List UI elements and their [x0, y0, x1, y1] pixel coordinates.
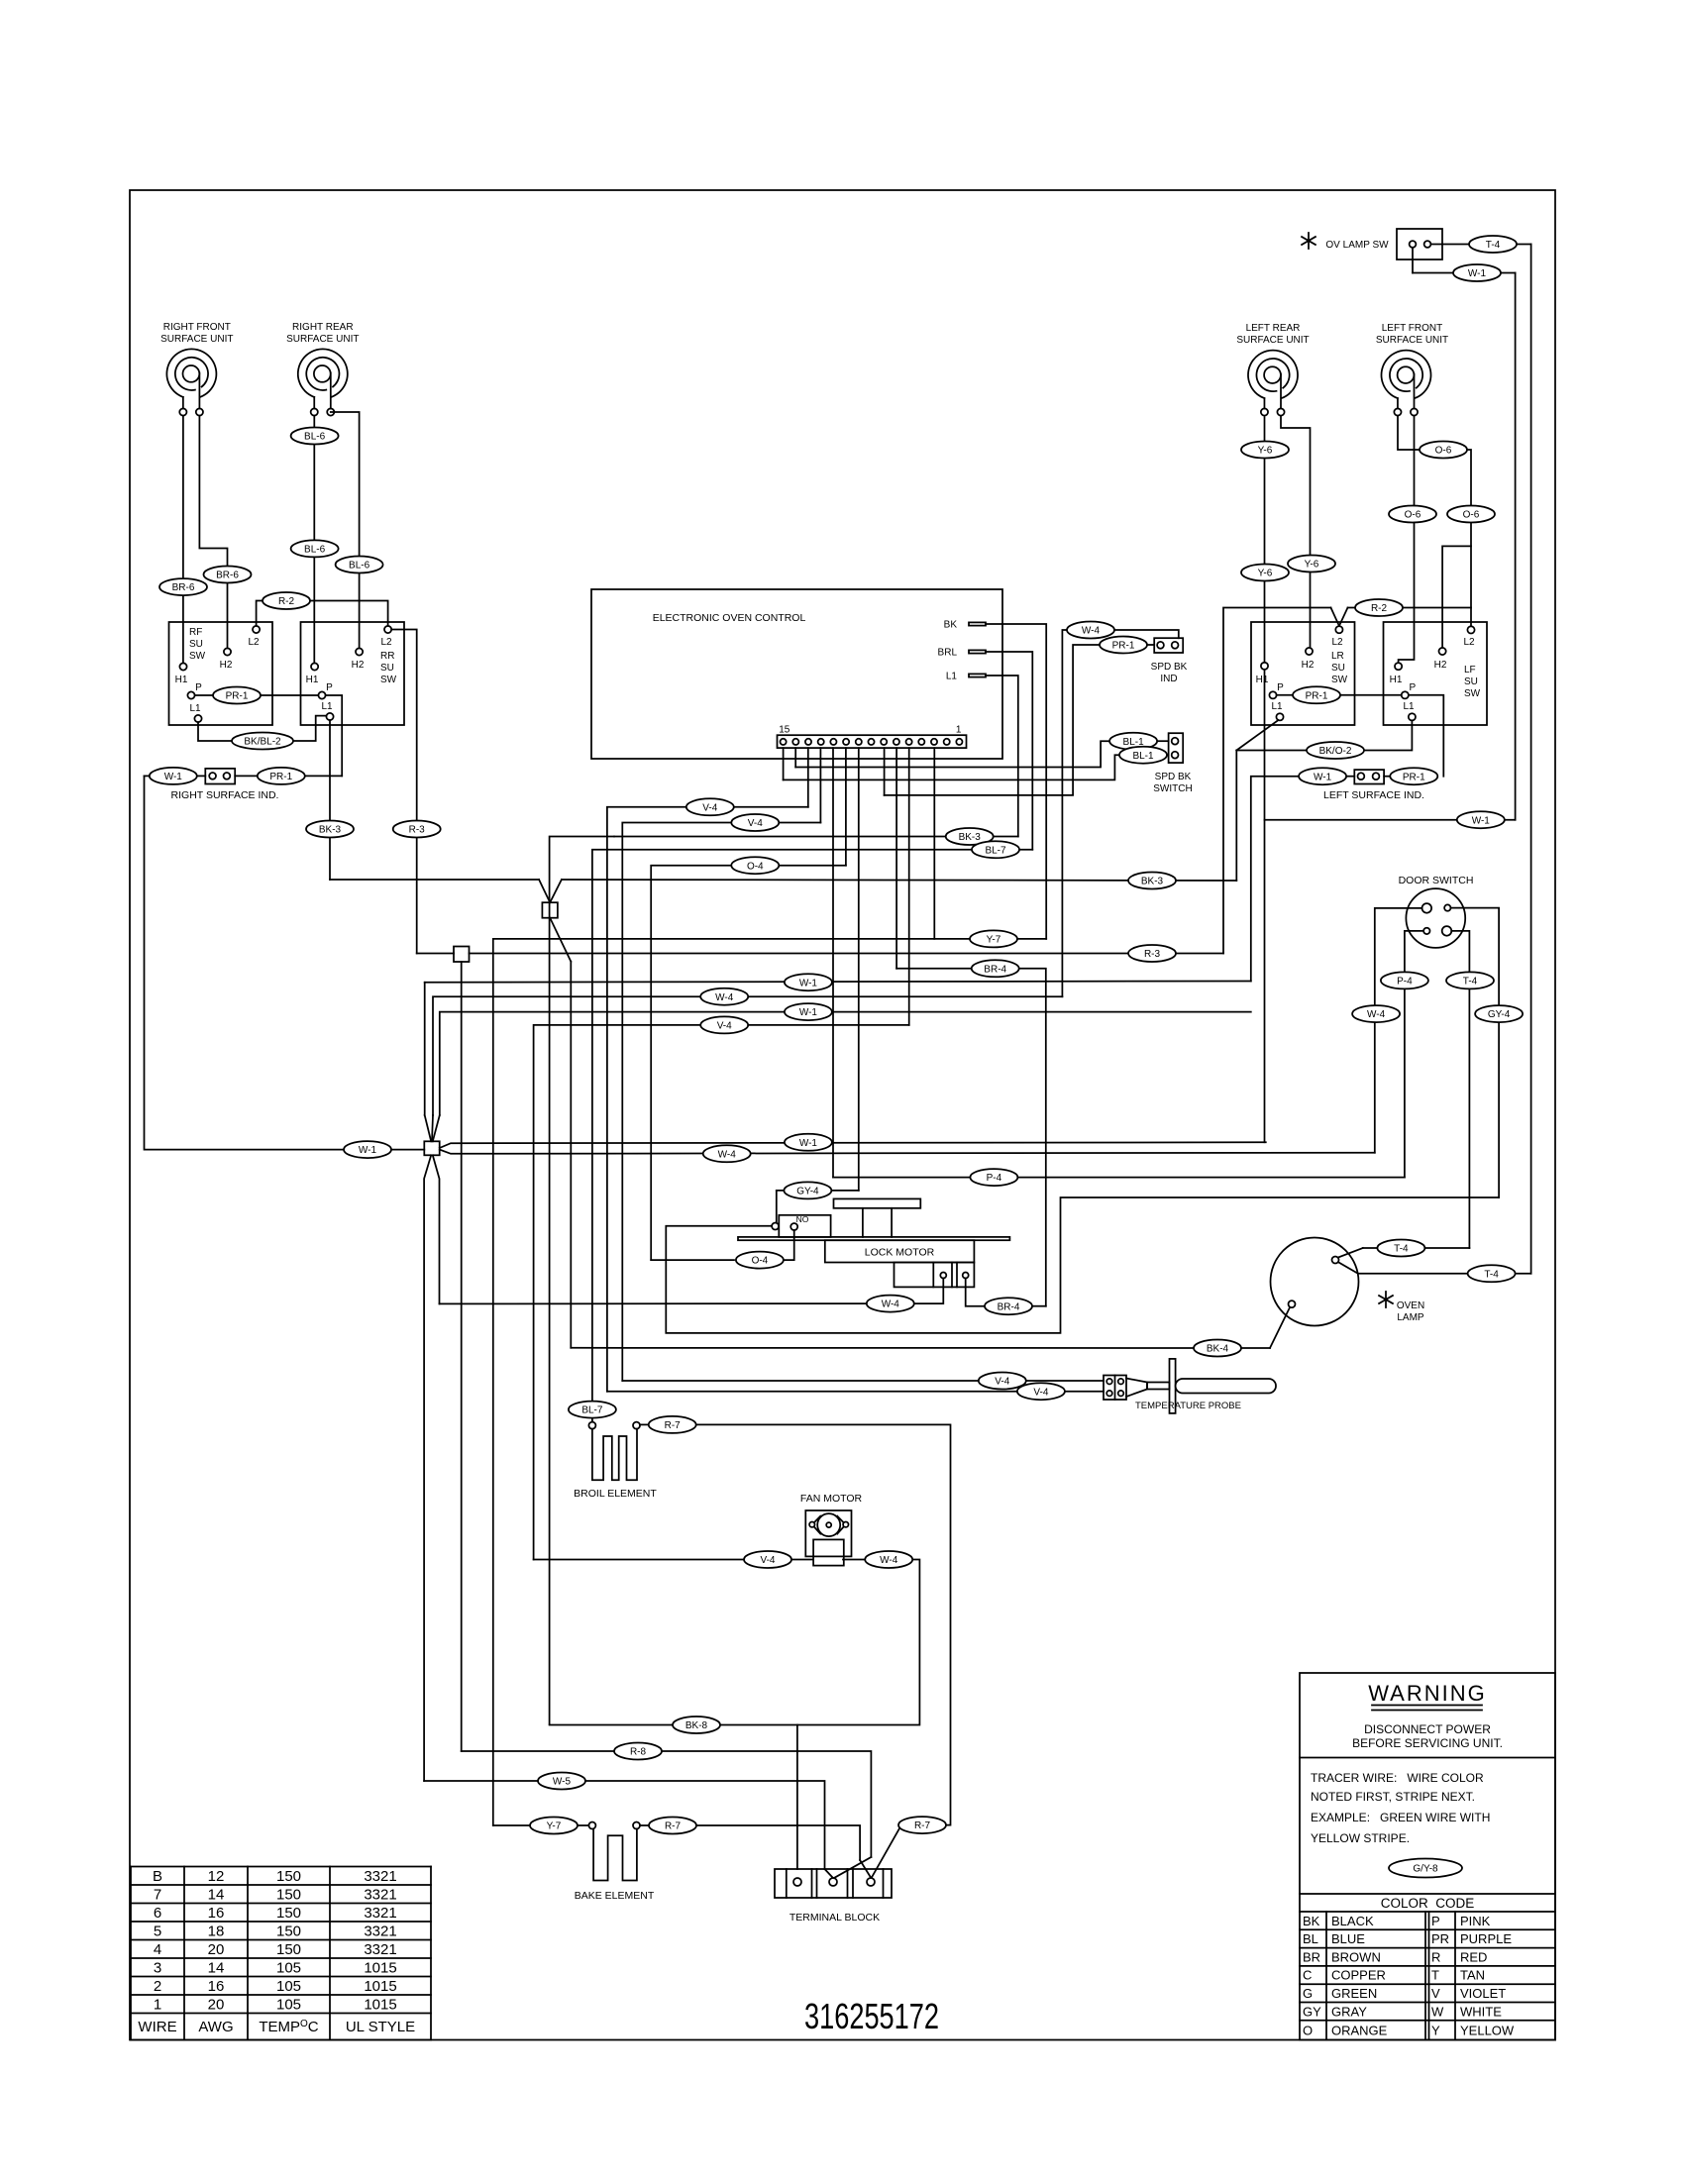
label R-8 [614, 1743, 662, 1760]
svg-text:O-4: O-4 [747, 861, 764, 872]
wire BK-4 rail [570, 962, 572, 1348]
pin LF P [1402, 691, 1409, 698]
label R-3 [1128, 945, 1176, 962]
wire W-1 to oval [1413, 272, 1455, 274]
oven lamp switch SW1 box [1397, 229, 1442, 260]
wire P-4 to door pin [1405, 930, 1423, 932]
label W-4 [867, 1296, 914, 1312]
svg-text:GY-4: GY-4 [1488, 1009, 1511, 1020]
RR surface unit coil [298, 349, 348, 396]
svg-text:H1: H1 [175, 675, 188, 685]
svg-text:BEFORE SERVICING UNIT.: BEFORE SERVICING UNIT. [1352, 1736, 1503, 1750]
svg-text:IND: IND [1160, 674, 1177, 684]
label W-1 [785, 1003, 832, 1020]
switch RF SU SW box [169, 622, 273, 725]
pin RF P [187, 691, 194, 698]
svg-text:V-4: V-4 [702, 802, 717, 813]
svg-text:TRACER WIRE: WIRE COLOR: TRACER WIRE: WIRE COLOR [1311, 1771, 1484, 1785]
bake element pin 1 [588, 1822, 595, 1829]
svg-text:1015: 1015 [364, 1978, 396, 1995]
wire V-4 mesh run [534, 1025, 909, 1560]
label BK-4 [1194, 1340, 1241, 1357]
svg-text:16: 16 [208, 1905, 225, 1922]
wire LR H1 lead [1264, 417, 1266, 663]
pin RF H2 [224, 648, 231, 655]
svg-text:W-1: W-1 [1314, 772, 1332, 782]
svg-text:W-1: W-1 [799, 1007, 818, 1018]
wire EOC pin 10 lead [845, 748, 847, 866]
svg-text:12: 12 [208, 1868, 225, 1885]
wire BK/O-2 to LF-L1 [1236, 720, 1412, 750]
switch LF SU SW box [1384, 622, 1488, 725]
wire T-4 from lamp switch [1431, 244, 1470, 246]
label PR-1 [258, 768, 305, 784]
wire gauge table grid [131, 1866, 431, 1868]
svg-text:R-3: R-3 [409, 825, 426, 836]
door switch pin TR [1444, 904, 1450, 910]
svg-text:PR: PR [1431, 1931, 1449, 1946]
svg-text:105: 105 [276, 1959, 301, 1976]
svg-text:BR-6: BR-6 [172, 582, 195, 593]
label BK/O-2 [1307, 742, 1364, 759]
wire P-4 horizontal [833, 1177, 1405, 1179]
wire R-3 j2 left [417, 953, 454, 955]
svg-text:L1: L1 [321, 701, 333, 712]
wire BL-1 lower to switch [1167, 754, 1169, 756]
svg-text:3321: 3321 [364, 1868, 396, 1885]
wire LF H2 lead [1442, 546, 1471, 648]
wire EOC BK to rail [986, 624, 1046, 939]
fan motor body [813, 1539, 844, 1565]
svg-text:150: 150 [276, 1868, 301, 1885]
oven lamp asterisk [1385, 1292, 1387, 1307]
lock motor connector divider 1 [932, 1263, 934, 1288]
label T-4 [1377, 1240, 1424, 1257]
wire W-4 lock motor left [440, 1302, 868, 1304]
svg-text:O-6: O-6 [1463, 510, 1480, 521]
svg-text:5: 5 [154, 1923, 161, 1939]
svg-text:BK/O-2: BK/O-2 [1319, 746, 1352, 757]
svg-text:P: P [1409, 682, 1416, 693]
svg-text:SURFACE UNIT: SURFACE UNIT [286, 334, 359, 345]
label BK-3 [946, 828, 994, 845]
svg-text:R-7: R-7 [665, 1420, 682, 1431]
wire O-4 to lock motor NO [651, 1259, 734, 1261]
svg-text:LEFT SURFACE IND.: LEFT SURFACE IND. [1323, 789, 1424, 801]
svg-text:GREEN: GREEN [1331, 1986, 1377, 2001]
label W-4 [703, 1145, 751, 1162]
lock motor terminal BR [963, 1273, 969, 1279]
label V-4 [731, 814, 779, 831]
svg-text:P: P [195, 682, 202, 693]
left surface indicator lamp 1 [1358, 773, 1365, 780]
wire EOC pin 15 lead [783, 748, 785, 780]
svg-text:V: V [1431, 1986, 1440, 2001]
wire V-4 probe lower [607, 1391, 1104, 1393]
svg-text:150: 150 [276, 1905, 301, 1922]
SPD BK SWITCH pin 2 [1172, 752, 1179, 759]
wire GY-4 to lock motor [776, 1191, 778, 1223]
warning title underline [1372, 1705, 1482, 1707]
svg-text:L2: L2 [380, 637, 392, 648]
lock motor bar [738, 1237, 1009, 1240]
wire W-1 mesh run 2 [440, 1012, 1251, 1115]
svg-text:V-4: V-4 [748, 818, 763, 829]
svg-text:105: 105 [276, 1978, 301, 1995]
wire W-5 run [424, 1781, 824, 1869]
label BK-3 [1128, 873, 1176, 889]
wire door BR to T-4 [1451, 931, 1469, 1248]
label PR-1 [1390, 768, 1437, 784]
pin LF H1 [1395, 663, 1402, 670]
svg-text:SURFACE UNIT: SURFACE UNIT [1376, 335, 1448, 346]
svg-text:105: 105 [276, 1996, 301, 2013]
svg-text:20: 20 [208, 1941, 225, 1958]
svg-text:ELECTRONIC OVEN CONTROL: ELECTRONIC OVEN CONTROL [653, 612, 806, 624]
wire R-7 bake run [696, 1825, 861, 1860]
label W-4 [865, 1551, 912, 1568]
broil element pin 2 [633, 1422, 640, 1429]
oven lamp switch pin 2 [1424, 241, 1431, 248]
svg-text:SU: SU [189, 639, 203, 650]
wire W-4 fan run [550, 1560, 920, 1725]
lock motor terminal W [940, 1273, 946, 1279]
terminal block lug 3 [867, 1878, 875, 1886]
svg-text:TEMPOC: TEMPOC [259, 2019, 318, 2035]
svg-text:Y-6: Y-6 [1305, 560, 1319, 571]
wire LF left terminal jog [1398, 416, 1471, 627]
svg-text:6: 6 [154, 1905, 161, 1922]
svg-text:BL-1: BL-1 [1132, 751, 1154, 762]
svg-text:W-4: W-4 [715, 992, 734, 1003]
terminal block divider 4 [847, 1869, 849, 1898]
wire R-2 LR to LF [1348, 607, 1472, 609]
svg-text:TEMPERATURE PROBE: TEMPERATURE PROBE [1135, 1401, 1241, 1411]
svg-text:H2: H2 [352, 660, 365, 671]
label BL-1 [1109, 733, 1157, 750]
svg-text:VIOLET: VIOLET [1460, 1986, 1506, 2001]
svg-text:V-4: V-4 [995, 1377, 1009, 1388]
svg-text:PR-1: PR-1 [1112, 641, 1135, 652]
svg-text:16: 16 [208, 1978, 225, 1995]
wire P to left surface ind [1409, 695, 1443, 777]
wire T-4 lamp upper [1363, 1247, 1470, 1249]
door switch pin BL [1423, 928, 1429, 934]
wire RF H1 lead [182, 416, 184, 664]
wire PR-1 to P vertical [305, 775, 343, 777]
svg-text:T-4: T-4 [1463, 977, 1478, 988]
wire BK-3 node run [330, 879, 539, 881]
wire R-7 broil run [696, 1424, 951, 1824]
svg-text:Y-7: Y-7 [547, 1821, 562, 1832]
svg-text:NO: NO [796, 1214, 809, 1224]
svg-text:150: 150 [276, 1923, 301, 1939]
svg-text:1: 1 [956, 725, 962, 736]
wire RR L1 down to node [329, 720, 331, 880]
SPD BK IND box [1154, 638, 1183, 653]
wire W-1 to rail [1499, 272, 1516, 274]
svg-text:W-4: W-4 [1367, 1009, 1386, 1020]
wire R-3 from RR L2 [391, 630, 417, 954]
fan motor frame [805, 1510, 851, 1556]
wire EOC pin 14 lead [794, 748, 796, 767]
label PR-1 [1100, 637, 1147, 654]
wire BL-1 upper [795, 741, 1109, 767]
svg-text:BK-3: BK-3 [319, 825, 342, 836]
pin LR P [1269, 691, 1276, 698]
svg-text:GY-4: GY-4 [796, 1187, 819, 1197]
wire R-2 LR funnel left [1223, 608, 1331, 954]
pin RR L1 [326, 713, 333, 720]
wire bowtie top-right diagonal [433, 1115, 440, 1141]
wire W-1 lamp horizontal [1265, 819, 1516, 821]
svg-text:C: C [1303, 1968, 1312, 1983]
wire BL-7 run to broil rail [592, 850, 973, 1421]
fan motor ear 2 [843, 1522, 848, 1527]
wire ind box to PR-1 [235, 775, 258, 777]
label Y-7 [530, 1818, 578, 1834]
lock motor leg 2 [891, 1208, 893, 1237]
svg-text:H1: H1 [1256, 675, 1269, 685]
wire W-1 stub right surface ind [145, 775, 151, 777]
wire R-8 diagonal to terminal [834, 1857, 871, 1878]
svg-text:15: 15 [779, 725, 790, 736]
junction j2 square [454, 947, 470, 963]
svg-text:BL-7: BL-7 [985, 845, 1006, 856]
wire EOC pin 9 lead [858, 748, 860, 1191]
label R-3 [393, 821, 441, 838]
svg-text:BAKE ELEMENT: BAKE ELEMENT [575, 1890, 655, 1902]
svg-text:TERMINAL BLOCK: TERMINAL BLOCK [789, 1912, 880, 1924]
svg-text:R-2: R-2 [1371, 603, 1388, 614]
svg-text:SU: SU [1464, 676, 1478, 687]
wire T-4 lamp upper diagonal [1338, 1248, 1363, 1258]
wire PR-1 to ind box [1146, 644, 1154, 646]
svg-text:O-4: O-4 [752, 1256, 769, 1267]
wire funnel output diagonal [550, 918, 571, 962]
svg-text:Y: Y [1431, 2023, 1440, 2037]
label R-2 [1355, 599, 1403, 616]
svg-text:BRL: BRL [938, 648, 958, 659]
svg-text:SURFACE UNIT: SURFACE UNIT [160, 334, 233, 345]
switch LR SU SW box [1251, 622, 1355, 725]
label T-4 [1469, 236, 1517, 253]
label GY-4 [1475, 1005, 1523, 1022]
label BL-6 [291, 540, 339, 557]
left surface indicator lamp 2 [1373, 773, 1380, 780]
svg-text:BLACK: BLACK [1331, 1914, 1374, 1928]
label BR-6 [204, 567, 252, 583]
bake element pin 2 [633, 1822, 640, 1829]
wire RF H2 lead [199, 416, 227, 649]
label O-6 [1389, 506, 1436, 523]
svg-text:2: 2 [154, 1978, 161, 1995]
label W-5 [538, 1773, 585, 1790]
wire W-4 mesh run [433, 996, 1062, 1115]
svg-text:R-7: R-7 [665, 1821, 682, 1832]
wire R-7 oval diagonal to terminal [872, 1827, 900, 1877]
svg-text:YELLOW: YELLOW [1460, 2023, 1515, 2037]
wire BL-1 upper to switch [1157, 740, 1169, 742]
wire W-4 EOC [1062, 630, 1068, 996]
wire W-5 diagonal to terminal [825, 1869, 833, 1878]
svg-text:BR-4: BR-4 [984, 964, 1006, 975]
svg-text:GRAY: GRAY [1331, 2004, 1367, 2019]
svg-text:W-1: W-1 [799, 978, 818, 988]
warning divider [1300, 1757, 1555, 1759]
SPD BK IND lamp 1 [1157, 642, 1164, 649]
svg-text:14: 14 [208, 1959, 225, 1976]
svg-text:SW: SW [1331, 675, 1348, 685]
svg-text:EXAMPLE: GREEN WIRE WITH: EXAMPLE: GREEN WIRE WITH [1311, 1811, 1490, 1824]
LR surface unit coil [1248, 351, 1298, 398]
fan motor shaft [826, 1522, 831, 1527]
label P-4 [970, 1169, 1017, 1186]
svg-text:Y-6: Y-6 [1258, 446, 1273, 457]
right surface indicator lamp 2 [224, 773, 231, 780]
svg-text:GY: GY [1303, 2004, 1321, 2019]
svg-text:PR-1: PR-1 [1403, 772, 1425, 782]
left surface indicator box [1354, 770, 1384, 783]
svg-text:L2: L2 [1463, 637, 1475, 648]
lock motor common pin [772, 1223, 779, 1230]
wire RR H1 lead [313, 416, 315, 664]
svg-text:Y-6: Y-6 [1258, 569, 1273, 579]
wire EOC pin 7 lead [884, 748, 886, 795]
svg-text:DISCONNECT POWER: DISCONNECT POWER [1364, 1722, 1491, 1736]
svg-text:RIGHT REAR: RIGHT REAR [292, 322, 354, 333]
svg-text:BK/BL-2: BK/BL-2 [244, 737, 281, 748]
label BK-8 [673, 1716, 720, 1733]
label T-4 [1446, 972, 1494, 988]
svg-text:T-4: T-4 [1484, 1269, 1499, 1280]
svg-text:L2: L2 [248, 637, 260, 648]
wire P to right surface ind [326, 695, 343, 776]
label BR-6 [159, 578, 207, 595]
wire V-4 pin13 run [607, 807, 808, 1392]
terminal block divider 6 [883, 1869, 885, 1898]
wire oval to ind box [197, 775, 206, 777]
junction funnel square [542, 902, 558, 918]
wire W-1 left rail down [145, 776, 425, 1149]
label V-4 [979, 1373, 1026, 1390]
wire V-4 probe upper [622, 1380, 1104, 1382]
oven lamp pin 1 [1332, 1257, 1339, 1264]
wire EOC BRL to rail [986, 652, 1032, 850]
svg-text:DOOR SWITCH: DOOR SWITCH [1399, 875, 1474, 886]
wire W-4 fan [843, 1559, 866, 1561]
terminal block divider 5 [852, 1869, 854, 1898]
svg-text:W-1: W-1 [359, 1145, 377, 1156]
svg-text:SW: SW [380, 675, 397, 685]
svg-text:V-4: V-4 [717, 1021, 732, 1032]
svg-text:PR-1: PR-1 [269, 772, 292, 782]
label R-7 [649, 1416, 696, 1433]
svg-text:3: 3 [154, 1959, 161, 1976]
wire W-4 lock motor [913, 1279, 943, 1304]
label BL-7 [972, 841, 1019, 858]
wire BR-4 pin6 run [896, 969, 1046, 1306]
pin LR H2 [1306, 648, 1313, 655]
svg-text:T: T [1431, 1968, 1439, 1983]
svg-text:P-4: P-4 [1397, 977, 1413, 988]
wire T-4 right vertical rail [1530, 245, 1532, 1274]
svg-text:BK-3: BK-3 [959, 832, 982, 843]
svg-text:BR: BR [1303, 1949, 1320, 1964]
svg-text:SU: SU [380, 663, 394, 674]
label V-4 [1017, 1383, 1065, 1400]
svg-text:BK: BK [944, 620, 958, 631]
svg-text:P: P [1277, 682, 1284, 693]
right surface indicator box [205, 769, 235, 784]
wire BK-3 L1 run left [614, 836, 948, 838]
label W-1 [344, 1141, 391, 1158]
svg-text:SW: SW [189, 651, 206, 662]
svg-text:R: R [1431, 1949, 1440, 1964]
wire Y-7 bake [493, 1824, 531, 1826]
svg-text:P: P [326, 682, 333, 693]
wire T-4 lamp lower diagonal [1339, 1263, 1359, 1274]
wire W-1 from lamp switch down [1412, 248, 1414, 273]
wire bowtie bottom-right diagonal [433, 1155, 440, 1303]
label V-4 [700, 1016, 748, 1033]
label W-4 [1067, 622, 1114, 639]
svg-text:BROIL ELEMENT: BROIL ELEMENT [574, 1488, 657, 1500]
svg-text:BROWN: BROWN [1331, 1949, 1381, 1964]
wire BK/BL-2 RF-L1 to RR-L1 [198, 716, 326, 741]
svg-text:W-4: W-4 [882, 1300, 900, 1310]
wire R-8 rail [461, 962, 463, 1751]
wire GY-4 from pin9 [777, 1190, 859, 1192]
svg-text:1: 1 [154, 1996, 161, 2013]
wire BK-8 drop to terminal [796, 1725, 798, 1870]
label W-1 [785, 1134, 832, 1151]
label W-4 [1352, 1005, 1400, 1022]
wire EOC pin 11 lead [832, 748, 834, 1178]
RF surface unit coil [166, 349, 216, 396]
label W-1 [150, 768, 197, 784]
svg-text:LAMP: LAMP [1397, 1312, 1424, 1323]
wire R-2 RF to RR [257, 601, 388, 626]
lock motor NO pin [790, 1223, 797, 1230]
electronic oven control box [591, 589, 1002, 759]
wire W-1 mesh horizontal [425, 982, 1251, 983]
svg-text:BL-7: BL-7 [581, 1405, 603, 1416]
svg-text:R-7: R-7 [914, 1820, 931, 1831]
wire EOC L1 to rail [986, 676, 1018, 837]
label BR-4 [985, 1298, 1032, 1314]
label W-1 [1299, 768, 1346, 784]
svg-text:BR-4: BR-4 [998, 1301, 1020, 1312]
EOC connector pins [781, 739, 787, 745]
wire bowtie top-mid [432, 1115, 433, 1141]
wire R-8 run [462, 1751, 872, 1857]
svg-text:150: 150 [276, 1941, 301, 1958]
svg-text:3321: 3321 [364, 1886, 396, 1903]
SPD BK IND lamp 2 [1172, 642, 1179, 649]
pin RR H1 [311, 663, 318, 670]
wire EOC pin 13 lead [807, 748, 809, 807]
svg-text:BL: BL [1303, 1931, 1318, 1946]
svg-text:L1: L1 [946, 672, 958, 682]
svg-text:G/Y-8: G/Y-8 [1413, 1864, 1438, 1875]
wire funnel left diagonal [539, 880, 550, 902]
terminal block divider 3 [816, 1869, 818, 1898]
svg-text:WHITE: WHITE [1460, 2004, 1502, 2019]
svg-text:R-2: R-2 [278, 596, 295, 607]
EOC pin BK dash [969, 622, 986, 625]
pin RR P [318, 691, 325, 698]
